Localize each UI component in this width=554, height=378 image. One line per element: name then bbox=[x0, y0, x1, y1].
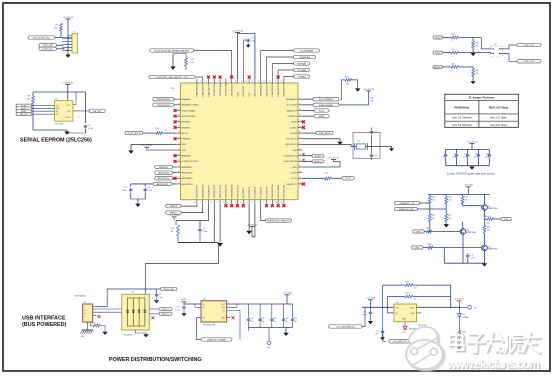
svg-text:HOLD: HOLD bbox=[66, 117, 72, 119]
svg-text:RC3/AN22/T: RC3/AN22/T bbox=[260, 186, 263, 199]
svg-text:CVREFOUT/RB9: CVREFOUT/RB9 bbox=[182, 161, 199, 163]
svg-text:2.1k: 2.1k bbox=[414, 287, 417, 289]
svg-text:USB_VBUS: USB_VBUS bbox=[319, 133, 331, 135]
svg-text:T2CK/RC1/AN: T2CK/RC1/AN bbox=[213, 82, 216, 96]
svg-text:pins 1-2: Shorted: pins 1-2: Shorted bbox=[452, 117, 472, 120]
svg-text:(BUS POWERED): (BUS POWERED) bbox=[22, 322, 67, 328]
svg-text:AN17/RG7/SDI: AN17/RG7/SDI bbox=[254, 82, 257, 97]
svg-text:22: 22 bbox=[178, 126, 180, 128]
svg-text:C15: C15 bbox=[453, 154, 456, 156]
svg-text:VDD: VDD bbox=[292, 167, 297, 169]
svg-text:USB_D-: USB_D- bbox=[162, 309, 170, 311]
svg-text:+3.3_PIC32: +3.3_PIC32 bbox=[141, 145, 153, 147]
svg-text:10k: 10k bbox=[27, 99, 30, 101]
svg-text:12: 12 bbox=[257, 80, 259, 82]
svg-text:+3.3_PIC32: +3.3_PIC32 bbox=[246, 224, 258, 226]
svg-text:55: 55 bbox=[240, 202, 242, 204]
svg-text:GND: GND bbox=[402, 319, 407, 321]
svg-text:+3.3_PIC32: +3.3_PIC32 bbox=[232, 30, 244, 32]
svg-text:10k: 10k bbox=[54, 28, 57, 30]
svg-text:+3.3_PIC32: +3.3_PIC32 bbox=[454, 298, 466, 300]
svg-text:0: 0 bbox=[452, 41, 453, 43]
svg-text:SCL1/RG2: SCL1/RG2 bbox=[287, 105, 298, 107]
svg-text:RA1/AN1/CVREF-: RA1/AN1/CVREF- bbox=[182, 104, 199, 107]
svg-text:pins 3-4: Open: pins 3-4: Open bbox=[490, 124, 507, 127]
svg-text:+5V_USB: +5V_USB bbox=[464, 185, 474, 187]
svg-text:10k: 10k bbox=[448, 218, 451, 220]
svg-text:LED2: LED2 bbox=[415, 247, 421, 249]
svg-text:OSC1/CLKI: OSC1/CLKI bbox=[286, 139, 297, 141]
svg-text:T4CK/RC3/AN: T4CK/RC3/AN bbox=[225, 82, 228, 96]
svg-text:SOSCI: SOSCI bbox=[315, 156, 322, 158]
svg-text:18: 18 bbox=[178, 103, 180, 105]
svg-text:+3.3_BRKOUT: +3.3_BRKOUT bbox=[392, 341, 407, 343]
svg-text:R32: R32 bbox=[487, 222, 490, 224]
svg-text:33: 33 bbox=[299, 98, 301, 100]
svg-text:14: 14 bbox=[269, 80, 271, 82]
svg-text:EE_CS: EE_CS bbox=[20, 114, 28, 116]
svg-text:0.1uF: 0.1uF bbox=[485, 157, 489, 159]
svg-text:RA0/AN0: RA0/AN0 bbox=[182, 98, 192, 101]
svg-text:21: 21 bbox=[178, 120, 180, 122]
svg-text:PMD3/RE3/P3: PMD3/RE3/P3 bbox=[203, 184, 205, 198]
svg-text:50: 50 bbox=[269, 202, 271, 204]
svg-text:1uF: 1uF bbox=[250, 321, 253, 323]
svg-text:SDA2: SDA2 bbox=[319, 115, 325, 118]
svg-text:R18: R18 bbox=[452, 63, 455, 65]
svg-text:+3.3_PIC32: +3.3_PIC32 bbox=[62, 82, 74, 84]
svg-text:VUSB3V3: VUSB3V3 bbox=[287, 116, 297, 118]
svg-text:4.7k: 4.7k bbox=[448, 200, 451, 202]
svg-text:R17: R17 bbox=[452, 49, 455, 51]
svg-text:51: 51 bbox=[263, 202, 265, 204]
svg-text:VDD: VDD bbox=[237, 92, 239, 97]
svg-text:VSS: VSS bbox=[182, 144, 187, 146]
svg-text:PGC2: PGC2 bbox=[435, 37, 442, 39]
svg-text:3: 3 bbox=[78, 117, 79, 119]
svg-text:TP2: TP2 bbox=[474, 307, 477, 309]
svg-text:52: 52 bbox=[257, 202, 259, 204]
svg-text:AN18/RG8/SDO: AN18/RG8/SDO bbox=[260, 81, 263, 97]
svg-text:0.1uF: 0.1uF bbox=[88, 128, 94, 130]
svg-text:10k: 10k bbox=[370, 100, 373, 102]
svg-text:R25: R25 bbox=[465, 197, 468, 199]
svg-text:TDI/RA4: TDI/RA4 bbox=[297, 75, 306, 78]
svg-text:11: 11 bbox=[252, 80, 254, 82]
svg-text:C11: C11 bbox=[251, 38, 254, 40]
svg-text:25LC256: 25LC256 bbox=[55, 124, 64, 126]
svg-text:RB10/AN13: RB10/AN13 bbox=[286, 98, 298, 101]
svg-text:C12: C12 bbox=[374, 132, 377, 134]
svg-text:SOSCO/RC14: SOSCO/RC14 bbox=[283, 161, 297, 163]
svg-text:62: 62 bbox=[199, 202, 201, 204]
svg-text:59: 59 bbox=[217, 202, 219, 204]
svg-text:TPD4E004: TPD4E004 bbox=[123, 335, 132, 337]
svg-text:+3.3_PIC32: +3.3_PIC32 bbox=[363, 89, 375, 91]
svg-text:R14: R14 bbox=[370, 98, 373, 100]
svg-text:PGC1/ICSP_PGC: PGC1/ICSP_PGC bbox=[33, 37, 51, 39]
svg-text:C3: C3 bbox=[125, 187, 127, 189]
svg-text:+3.3_PIC32: +3.3_PIC32 bbox=[328, 157, 340, 159]
svg-text:44: 44 bbox=[299, 160, 301, 162]
svg-text:PMD1/RE1/P1: PMD1/RE1/P1 bbox=[226, 184, 228, 198]
svg-text:VBUS: VBUS bbox=[291, 122, 297, 124]
svg-text:49: 49 bbox=[275, 202, 277, 204]
svg-text:47k: 47k bbox=[476, 73, 479, 75]
svg-text:RD0/SDO1/IN: RD0/SDO1/IN bbox=[284, 185, 286, 199]
svg-text:19: 19 bbox=[178, 109, 180, 111]
svg-text:31: 31 bbox=[178, 177, 180, 179]
svg-text:1k: 1k bbox=[325, 180, 327, 182]
svg-text:1M: 1M bbox=[171, 231, 174, 233]
svg-text:PMD5/RE5/P5: PMD5/RE5/P5 bbox=[197, 82, 199, 96]
svg-text:RC2/AN21/T: RC2/AN21/T bbox=[254, 186, 257, 199]
svg-text:PGD2: PGD2 bbox=[435, 53, 442, 55]
svg-text:TRD2/RG14/T: TRD2/RG14/T bbox=[237, 184, 239, 198]
svg-text:PMD0/RE0/P0: PMD0/RE0/P0 bbox=[232, 184, 234, 198]
svg-text:USB_D+: USB_D+ bbox=[161, 314, 170, 316]
svg-text:R19: R19 bbox=[476, 43, 479, 45]
svg-text:C17: C17 bbox=[475, 154, 478, 156]
svg-text:USBHOST_OC: USBHOST_OC bbox=[400, 203, 415, 205]
svg-text:+3.3_PIC32: +3.3_PIC32 bbox=[62, 17, 74, 19]
svg-text:57: 57 bbox=[228, 202, 230, 204]
svg-text:29: 29 bbox=[178, 165, 180, 167]
svg-text:AN10/RB15: AN10/RB15 bbox=[182, 171, 194, 174]
svg-text:SDA1/PMPA14: SDA1/PMPA14 bbox=[319, 104, 334, 107]
svg-text:PMPRD/RD5_BRKOUT: PMPRD/RD5_BRKOUT bbox=[267, 221, 290, 223]
svg-text:1: 1 bbox=[144, 296, 145, 298]
svg-text:PIC32_MCLR/RE_SENSE_BRKOUT: PIC32_MCLR/RE_SENSE_BRKOUT bbox=[154, 50, 190, 52]
svg-text:VBUS: VBUS bbox=[181, 299, 187, 301]
svg-text:27: 27 bbox=[178, 154, 180, 156]
svg-text:3: 3 bbox=[206, 80, 207, 82]
svg-text:RA7/TRD3: RA7/TRD3 bbox=[242, 187, 245, 198]
svg-text:48: 48 bbox=[281, 202, 283, 204]
svg-text:AN8/RB8: AN8/RB8 bbox=[182, 155, 192, 158]
svg-text:23: 23 bbox=[178, 132, 180, 134]
svg-text:C23: C23 bbox=[285, 318, 288, 320]
svg-text:TRD0/RG13/T: TRD0/RG13/T bbox=[214, 184, 216, 198]
svg-text:4.7k: 4.7k bbox=[432, 200, 435, 202]
svg-text:53: 53 bbox=[252, 202, 254, 204]
svg-text:RD8/RTCC: RD8/RTCC bbox=[286, 184, 297, 186]
svg-text:0.1uF: 0.1uF bbox=[474, 157, 478, 159]
svg-text:ICSP_PGC: ICSP_PGC bbox=[523, 45, 534, 47]
svg-text:R29: R29 bbox=[426, 228, 429, 230]
svg-text:R21: R21 bbox=[406, 281, 409, 283]
svg-text:MCLR2: MCLR2 bbox=[434, 67, 442, 69]
svg-text:SDA2/RA3: SDA2/RA3 bbox=[299, 56, 310, 59]
svg-text:C13: C13 bbox=[374, 155, 377, 157]
svg-text:PMD4/RE4/P4: PMD4/RE4/P4 bbox=[197, 184, 199, 198]
svg-text:MMBT3904: MMBT3904 bbox=[488, 249, 498, 251]
svg-text:R31: R31 bbox=[462, 332, 465, 334]
svg-text:1: 1 bbox=[194, 80, 195, 82]
svg-text:VDD: VDD bbox=[182, 150, 187, 152]
svg-text:D+/RG2: D+/RG2 bbox=[289, 127, 297, 129]
svg-text:J2 Jumper Positions: J2 Jumper Positions bbox=[468, 95, 495, 99]
svg-text:56: 56 bbox=[234, 202, 236, 204]
svg-text:ICSP_CLK: ICSP_CLK bbox=[43, 49, 54, 51]
svg-text:6: 6 bbox=[223, 80, 224, 82]
svg-text:1uF: 1uF bbox=[294, 321, 297, 323]
svg-text:47: 47 bbox=[299, 177, 301, 179]
svg-text:10k: 10k bbox=[346, 84, 349, 86]
svg-text:24: 24 bbox=[178, 137, 180, 139]
svg-text:PKOB Mode: PKOB Mode bbox=[454, 105, 470, 109]
svg-text:C4: C4 bbox=[148, 187, 150, 189]
svg-text:RC15: RC15 bbox=[291, 178, 297, 180]
svg-text:AN16/RG6/SCK: AN16/RG6/SCK bbox=[231, 81, 234, 97]
svg-text:USB MINI-B: USB MINI-B bbox=[75, 296, 87, 298]
svg-text:C16: C16 bbox=[464, 154, 467, 156]
svg-text:0.1uF: 0.1uF bbox=[463, 157, 467, 159]
svg-text:43: 43 bbox=[299, 154, 301, 156]
svg-text:RA6/TRCLK: RA6/TRCLK bbox=[248, 186, 251, 198]
svg-text:TDO/RA5: TDO/RA5 bbox=[297, 69, 307, 72]
svg-text:R24: R24 bbox=[448, 197, 451, 199]
svg-text:MMBT3904: MMBT3904 bbox=[488, 208, 498, 210]
svg-text:+5V_USB: +5V_USB bbox=[366, 298, 376, 300]
svg-text:+5V_USB_BRKOUT: +5V_USB_BRKOUT bbox=[336, 326, 356, 328]
svg-text:30: 30 bbox=[178, 171, 180, 173]
svg-text:PMPD9/RB11: PMPD9/RB11 bbox=[157, 105, 171, 107]
svg-text:PMD7/RE7/P1: PMD7/RE7/P1 bbox=[208, 82, 210, 96]
svg-text:RB4/AN6: RB4/AN6 bbox=[182, 138, 192, 141]
svg-text:63: 63 bbox=[194, 202, 196, 204]
svg-text:0.1uF: 0.1uF bbox=[148, 190, 154, 192]
svg-text:C10: C10 bbox=[177, 307, 180, 309]
svg-text:RC4/AN23/T: RC4/AN23/T bbox=[265, 186, 268, 199]
svg-text:1uF: 1uF bbox=[273, 321, 276, 323]
svg-text:C19: C19 bbox=[470, 255, 473, 257]
svg-text:32: 32 bbox=[178, 182, 180, 184]
svg-text:PMPD8/RB10: PMPD8/RB10 bbox=[157, 99, 171, 101]
svg-text:10k: 10k bbox=[191, 62, 194, 64]
svg-text:PMA3/RG15/A: PMA3/RG15/A bbox=[271, 184, 274, 198]
svg-text:4: 4 bbox=[212, 80, 213, 82]
svg-text:TMS/RA0: TMS/RA0 bbox=[297, 62, 307, 65]
svg-text:D+: D+ bbox=[84, 313, 86, 315]
svg-text:MCLR2/RG: MCLR2/RG bbox=[243, 85, 245, 96]
svg-text:VBUSON/RB5: VBUSON/RB5 bbox=[278, 184, 280, 198]
svg-text:EE_WP: EE_WP bbox=[93, 111, 101, 113]
svg-text:45: 45 bbox=[299, 165, 301, 167]
svg-text:R13: R13 bbox=[345, 76, 348, 78]
svg-text:PMA4/RE9/INT: PMA4/RE9/INT bbox=[277, 82, 280, 97]
svg-text:RTCC: RTCC bbox=[345, 178, 351, 180]
svg-text:34: 34 bbox=[299, 103, 301, 105]
svg-text:R12: R12 bbox=[171, 228, 174, 230]
svg-text:C16: C16 bbox=[363, 312, 366, 314]
svg-text:+3.3_PIC32: +3.3_PIC32 bbox=[169, 215, 181, 217]
svg-text:16: 16 bbox=[281, 80, 283, 82]
svg-text:T3CK/RC2/AN: T3CK/RC2/AN bbox=[219, 82, 222, 96]
svg-text:R30: R30 bbox=[428, 244, 431, 246]
svg-text:C18: C18 bbox=[486, 154, 489, 156]
svg-text:8: 8 bbox=[235, 80, 236, 82]
svg-text:REAL ICE Mode: REAL ICE Mode bbox=[489, 105, 509, 109]
svg-text:C7: C7 bbox=[203, 228, 205, 230]
svg-text:60: 60 bbox=[211, 202, 213, 204]
svg-text:+3.3_PIC32: +3.3_PIC32 bbox=[466, 141, 478, 143]
svg-text:R26: R26 bbox=[432, 215, 435, 217]
svg-text:LED1: LED1 bbox=[416, 231, 422, 233]
svg-text:42: 42 bbox=[299, 148, 301, 150]
svg-text:C9: C9 bbox=[159, 294, 161, 296]
svg-text:AN9/SS1: AN9/SS1 bbox=[159, 166, 169, 169]
svg-text:AN9/RB14: AN9/RB14 bbox=[182, 166, 193, 169]
svg-text:10: 10 bbox=[246, 80, 248, 82]
svg-text:5: 5 bbox=[118, 306, 119, 308]
svg-text:RB1/PGC/AN3: RB1/PGC/AN3 bbox=[182, 115, 197, 118]
svg-text:7: 7 bbox=[229, 80, 230, 82]
svg-text:PMPD0: PMPD0 bbox=[170, 206, 178, 208]
svg-text:2: 2 bbox=[200, 80, 201, 82]
svg-text:USB INTERFACE: USB INTERFACE bbox=[22, 316, 66, 322]
svg-text:9: 9 bbox=[241, 80, 242, 82]
svg-text:MMBT3904: MMBT3904 bbox=[466, 232, 476, 234]
svg-text:SCL1/PMPA15: SCL1/PMPA15 bbox=[319, 98, 334, 101]
svg-text:47k: 47k bbox=[476, 46, 479, 48]
svg-text:46: 46 bbox=[299, 171, 301, 173]
svg-text:37: 37 bbox=[299, 120, 301, 122]
svg-text:ADJ: ADJ bbox=[411, 312, 415, 315]
svg-text:SERIAL EEPROM (25LC256): SERIAL EEPROM (25LC256) bbox=[20, 137, 92, 143]
svg-text:PIC32_MCLR: PIC32_MCLR bbox=[127, 133, 141, 135]
svg-text:D-/RG3: D-/RG3 bbox=[290, 133, 298, 135]
svg-text:0: 0 bbox=[452, 56, 453, 58]
svg-text:GND: GND bbox=[221, 318, 226, 320]
svg-text:GREEN: GREEN bbox=[462, 317, 469, 319]
svg-text:AN12/SCK1: AN12/SCK1 bbox=[157, 183, 169, 186]
svg-text:PMD6/RE6/P2: PMD6/RE6/P2 bbox=[203, 82, 205, 96]
svg-text:26: 26 bbox=[178, 148, 180, 150]
svg-text:1uF: 1uF bbox=[261, 321, 264, 323]
svg-text:17: 17 bbox=[178, 98, 180, 100]
svg-text:25: 25 bbox=[178, 143, 180, 145]
svg-text:0.1uF: 0.1uF bbox=[203, 231, 209, 233]
svg-text:C20: C20 bbox=[250, 318, 253, 320]
svg-text:R15: R15 bbox=[325, 173, 328, 175]
svg-text:36: 36 bbox=[299, 115, 301, 117]
svg-text:TP1: TP1 bbox=[267, 347, 270, 349]
svg-text:RB0/PGD/AN2: RB0/PGD/AN2 bbox=[182, 109, 197, 112]
svg-text:D+/RG: D+/RG bbox=[290, 172, 297, 174]
svg-text:58: 58 bbox=[223, 202, 225, 204]
svg-text:10k: 10k bbox=[432, 218, 435, 220]
svg-text:5: 5 bbox=[218, 80, 219, 82]
svg-text:AN10/SDI1: AN10/SDI1 bbox=[158, 172, 170, 175]
svg-text:61: 61 bbox=[205, 202, 207, 204]
svg-text:38: 38 bbox=[299, 126, 301, 128]
svg-text:SDA1/RG3: SDA1/RG3 bbox=[287, 109, 298, 112]
svg-text:C17: C17 bbox=[376, 331, 379, 333]
svg-text:R10: R10 bbox=[156, 128, 159, 130]
svg-text:VSS: VSS bbox=[293, 150, 298, 152]
svg-text:C21: C21 bbox=[261, 318, 264, 320]
svg-text:R27: R27 bbox=[448, 215, 451, 217]
svg-text:D2: D2 bbox=[462, 314, 464, 316]
svg-text:0: 0 bbox=[165, 130, 166, 132]
svg-text:OSC2/CLKO: OSC2/CLKO bbox=[285, 144, 297, 146]
svg-text:AN11/SDO1: AN11/SDO1 bbox=[158, 177, 170, 180]
svg-text:AN19/RG9/SS2: AN19/RG9/SS2 bbox=[265, 81, 268, 96]
svg-text:54: 54 bbox=[246, 202, 248, 204]
svg-text:R16: R16 bbox=[452, 34, 455, 36]
svg-text:35: 35 bbox=[299, 109, 301, 111]
svg-text:SOSCO: SOSCO bbox=[314, 161, 322, 163]
svg-text:POWER DISTRIBUTION/SWITCHING: POWER DISTRIBUTION/SWITCHING bbox=[109, 357, 202, 363]
svg-text:PMD2/RE2/P2: PMD2/RE2/P2 bbox=[208, 184, 210, 198]
svg-text:J3: J3 bbox=[84, 302, 86, 304]
svg-text:RB2/AN4: RB2/AN4 bbox=[182, 121, 192, 124]
svg-text:13: 13 bbox=[263, 80, 265, 82]
svg-text:USBHOST_EN: USBHOST_EN bbox=[399, 209, 414, 211]
svg-text:VSS: VSS bbox=[249, 92, 251, 97]
svg-text:VBUS_DET: VBUS_DET bbox=[163, 289, 175, 291]
svg-text:0: 0 bbox=[452, 70, 453, 72]
svg-text:R28: R28 bbox=[487, 227, 490, 229]
svg-text:C22: C22 bbox=[273, 318, 276, 320]
svg-text:R22: R22 bbox=[406, 293, 409, 295]
svg-text:SOSCI/RC13: SOSCI/RC13 bbox=[284, 156, 297, 158]
svg-text:+5V_USB: +5V_USB bbox=[282, 293, 292, 295]
svg-text:PMA5/RE8/INT: PMA5/RE8/INT bbox=[271, 82, 274, 97]
svg-text:C14: C14 bbox=[442, 154, 445, 156]
svg-text:AN20/RB5/CN7: AN20/RB5/CN7 bbox=[283, 81, 286, 96]
svg-text:AN11/RB12: AN11/RB12 bbox=[182, 177, 194, 180]
svg-text:RB3/AN5: RB3/AN5 bbox=[182, 126, 192, 129]
svg-text:15: 15 bbox=[275, 80, 277, 82]
svg-text:TRD1/RG12/T: TRD1/RG12/T bbox=[220, 184, 222, 198]
svg-text:USB_HI: USB_HI bbox=[483, 216, 490, 218]
svg-text:20: 20 bbox=[178, 115, 180, 117]
svg-text:39: 39 bbox=[299, 132, 301, 134]
svg-text:ICSP_PGD: ICSP_PGD bbox=[523, 61, 534, 63]
svg-text:PGD1/ICSP_DAT_BRKOUT_PGD: PGD1/ICSP_DAT_BRKOUT_PGD bbox=[156, 76, 189, 79]
svg-text:R20: R20 bbox=[476, 70, 479, 72]
svg-text:www.elecfans.com: www.elecfans.com bbox=[446, 357, 540, 371]
svg-text:VOUT: VOUT bbox=[410, 307, 416, 309]
svg-text:48: 48 bbox=[299, 182, 301, 184]
svg-text:USBHOST_EN/RB5: USBHOST_EN/RB5 bbox=[207, 339, 227, 341]
svg-text:pins 3-4: Shorted: pins 3-4: Shorted bbox=[452, 124, 472, 127]
svg-text:C24: C24 bbox=[294, 318, 297, 320]
svg-text:28: 28 bbox=[178, 160, 180, 162]
svg-text:41: 41 bbox=[299, 143, 301, 145]
svg-text:R23: R23 bbox=[432, 197, 435, 199]
svg-text:0.1uF: 0.1uF bbox=[441, 157, 445, 159]
svg-text:SCL2/PMPA3: SCL2/PMPA3 bbox=[300, 49, 314, 52]
svg-text:VR1: VR1 bbox=[402, 332, 406, 334]
svg-text:SCL2: SCL2 bbox=[319, 110, 325, 112]
svg-text:AN12/RB13: AN12/RB13 bbox=[182, 183, 194, 186]
svg-text:R11: R11 bbox=[191, 59, 194, 61]
svg-text:10k: 10k bbox=[487, 230, 490, 232]
svg-text:(Locate VDD/VSS bypass caps cl: (Locate VDD/VSS bypass caps close to pin… bbox=[447, 173, 495, 176]
svg-text:Y2: Y2 bbox=[358, 141, 360, 143]
svg-text:R33: R33 bbox=[92, 323, 95, 325]
svg-text:pins 1-2: Open: pins 1-2: Open bbox=[490, 117, 507, 120]
svg-text:1uF: 1uF bbox=[285, 321, 288, 323]
svg-text:MIC2025-1YM: MIC2025-1YM bbox=[203, 324, 216, 326]
svg-text:0.1uF: 0.1uF bbox=[452, 157, 456, 159]
svg-text:1k: 1k bbox=[414, 299, 416, 301]
svg-text:10k: 10k bbox=[465, 200, 468, 202]
svg-text:40: 40 bbox=[299, 137, 301, 139]
